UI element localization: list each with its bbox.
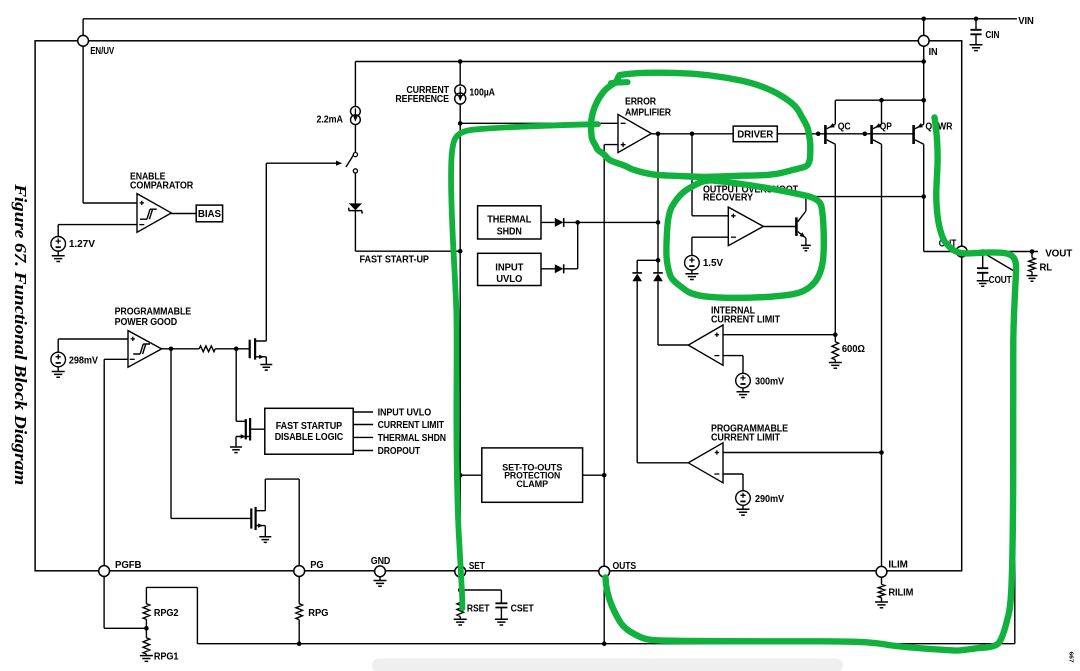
svg-text:FAST STARTUP: FAST STARTUP — [276, 421, 343, 432]
svg-text:INPUT: INPUT — [495, 262, 524, 273]
svg-text:RPG2: RPG2 — [154, 608, 179, 619]
svg-text:BIAS: BIAS — [198, 209, 221, 220]
svg-text:RECOVERY: RECOVERY — [703, 193, 753, 204]
svg-text:OUTS: OUTS — [613, 561, 637, 572]
svg-text:100µA: 100µA — [469, 88, 495, 99]
svg-text:THERMAL: THERMAL — [487, 215, 531, 226]
svg-text:298mV: 298mV — [69, 355, 98, 366]
svg-text:QP: QP — [880, 122, 892, 133]
svg-text:AMPLIFIER: AMPLIFIER — [625, 108, 672, 119]
svg-text:DRIVER: DRIVER — [737, 130, 774, 141]
svg-text:ILIM: ILIM — [888, 560, 907, 571]
svg-text:CURRENT LIMIT: CURRENT LIMIT — [711, 433, 781, 444]
svg-text:COUT: COUT — [989, 275, 1013, 286]
svg-text:300mV: 300mV — [755, 377, 784, 388]
svg-text:RL: RL — [1040, 263, 1053, 274]
svg-text:INPUT UVLO: INPUT UVLO — [378, 407, 432, 418]
svg-text:FAST START-UP: FAST START-UP — [360, 255, 430, 266]
svg-text:667: 667 — [1068, 652, 1074, 663]
svg-text:EN/UV: EN/UV — [90, 46, 114, 57]
svg-text:RPG: RPG — [308, 608, 328, 619]
svg-text:RSET: RSET — [467, 603, 490, 614]
svg-text:CLAMP: CLAMP — [516, 479, 548, 489]
svg-text:SET: SET — [469, 561, 486, 572]
svg-text:600Ω: 600Ω — [842, 344, 865, 355]
svg-text:PG: PG — [310, 560, 324, 571]
svg-text:GND: GND — [371, 556, 391, 567]
svg-text:UVLO: UVLO — [496, 274, 522, 285]
svg-text:QC: QC — [838, 122, 851, 133]
svg-text:VIN: VIN — [1018, 16, 1033, 27]
svg-text:VOUT: VOUT — [1045, 248, 1073, 259]
svg-text:Figure 67. Functional Block Di: Figure 67. Functional Block Diagram — [11, 183, 30, 485]
svg-text:ERROR: ERROR — [625, 97, 657, 108]
svg-text:1.5V: 1.5V — [703, 258, 723, 269]
svg-text:REFERENCE: REFERENCE — [395, 94, 449, 105]
svg-text:DROPOUT: DROPOUT — [378, 446, 421, 457]
svg-text:THERMAL SHDN: THERMAL SHDN — [378, 433, 446, 444]
svg-text:RPG1: RPG1 — [154, 651, 179, 662]
svg-text:2.2mA: 2.2mA — [317, 114, 343, 125]
svg-text:RILIM: RILIM — [888, 587, 913, 598]
svg-text:CIN: CIN — [985, 30, 999, 41]
svg-text:CURRENT LIMIT: CURRENT LIMIT — [711, 314, 781, 325]
svg-text:290mV: 290mV — [755, 494, 784, 505]
svg-text:IN: IN — [929, 47, 938, 58]
svg-text:SHDN: SHDN — [497, 226, 522, 237]
svg-text:CSET: CSET — [511, 603, 535, 614]
svg-text:CURRENT LIMIT: CURRENT LIMIT — [378, 420, 445, 431]
svg-text:POWER GOOD: POWER GOOD — [115, 317, 178, 328]
svg-text:PGFB: PGFB — [115, 560, 141, 571]
svg-text:COMPARATOR: COMPARATOR — [130, 181, 194, 192]
svg-text:DISABLE LOGIC: DISABLE LOGIC — [275, 432, 343, 443]
svg-text:1.27V: 1.27V — [69, 239, 95, 250]
